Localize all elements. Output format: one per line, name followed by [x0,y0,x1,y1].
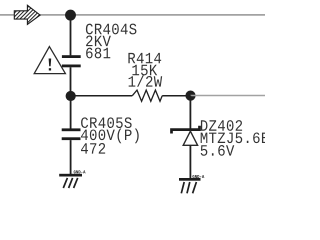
wire mid horizontal to resistor [71,95,133,97]
node junction top [65,10,76,21]
resistor R414 zigzag [132,90,162,101]
wire gray to right edge [191,95,266,97]
label 472 [81,143,105,154]
label DZ402 [201,120,242,131]
label 15K [132,65,157,76]
wire CR405S to ground [70,140,72,174]
label R414 [128,53,161,63]
label CR404S [86,24,137,35]
zener diode DZ402 [172,126,200,146]
label 681 [86,48,110,59]
label 400V(P) [81,129,139,144]
capacitor CR405S [62,128,81,140]
label 5.6V [201,145,235,156]
capacitor CR404S [62,55,81,67]
wire from CR404S down to mid node [70,67,72,96]
wire vertical right node down to DZ402 [189,96,191,129]
label CR405S [81,117,132,128]
node junction mid-right [185,91,195,101]
wire from resistor to right node [162,95,190,97]
wire top horizontal gray net [0,14,265,16]
wire vertical from top node to CR404S [70,15,72,55]
label 1/2W [129,75,163,87]
warning triangle [34,47,65,74]
ground left [59,170,85,188]
node junction mid-left [66,91,76,101]
label 2KV [86,36,111,47]
ground right [179,175,204,193]
label MTZJ5.6B [201,132,269,143]
wire DZ402 to ground [189,145,191,178]
signal-input arrow (hatched) [14,5,40,24]
wire vertical mid node down to CR405S [70,96,72,129]
